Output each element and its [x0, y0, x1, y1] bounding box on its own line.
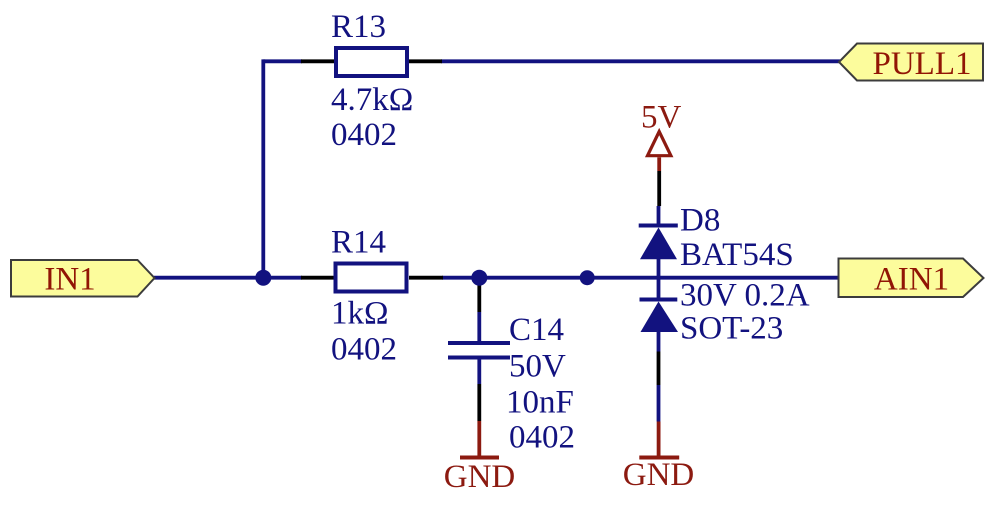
label: 5V net name — [641, 99, 682, 135]
svg-text:1kΩ: 1kΩ — [331, 296, 389, 332]
wire: IN1 net from IN1 port to R14 left pin — [154, 276, 302, 280]
wire: from D8 anode pin down to GND symbol — [657, 385, 661, 422]
svg-text:IN1: IN1 — [44, 261, 95, 297]
label: R14 reference — [331, 224, 386, 260]
svg-text:GND: GND — [444, 459, 516, 495]
wire: vertical from top corner down to IN1 net — [261, 59, 265, 278]
svg-text:30V 0.2A: 30V 0.2A — [680, 278, 810, 314]
svg-text:C14: C14 — [509, 312, 564, 348]
svg-text:D8: D8 — [680, 203, 720, 239]
svg-text:SOT-23: SOT-23 — [680, 310, 783, 346]
power 5V symbol — [648, 132, 671, 172]
resistor R13 body — [336, 48, 407, 76]
ground: GND symbol below D8 — [639, 422, 679, 458]
label: R13 reference — [331, 9, 386, 45]
svg-text:0402: 0402 — [331, 332, 397, 368]
svg-text:0402: 0402 — [331, 117, 397, 153]
pin: D8 anode pin to GND — [657, 352, 661, 386]
resistor R14 body — [336, 264, 407, 292]
label: C14 reference — [509, 312, 564, 348]
port PULL1 flag — [839, 44, 983, 81]
label: R13 footprint 0402 — [331, 117, 397, 153]
svg-text:4.7kΩ: 4.7kΩ — [331, 82, 413, 118]
node C: junction on AIN1 net — [580, 270, 595, 285]
port IN1 flag — [11, 260, 155, 297]
svg-text:PULL1: PULL1 — [873, 46, 972, 82]
wire: PULL1 net horizontal left segment — [263, 59, 302, 63]
diode D8 upper (to 5V) — [639, 206, 678, 298]
pin: C14 pin 1 — [477, 278, 481, 312]
pin: R13 pin 2 — [409, 59, 442, 63]
svg-text:5V: 5V — [641, 99, 682, 135]
diode D8 lower (to GND) — [640, 300, 679, 352]
pin: R14 pin 1 — [301, 276, 334, 280]
label: R14 footprint 0402 — [331, 332, 397, 368]
label: port PULL1 text — [873, 46, 972, 82]
label: D8 part BAT54S — [680, 237, 794, 273]
pin: D8 cathode pin to 5V — [657, 171, 661, 206]
capacitor C14 — [448, 312, 510, 384]
svg-text:R13: R13 — [331, 9, 386, 45]
label: D8 reference — [680, 203, 720, 239]
wire: PULL1 net horizontal right segment to PULL1 port — [441, 59, 840, 63]
pin: R13 pin 1 — [301, 59, 334, 63]
label: D8 rating 30V 0.2A — [680, 278, 810, 314]
svg-text:0402: 0402 — [509, 419, 575, 455]
wire: AIN1 net from R14 right pin to AIN1 port — [442, 276, 839, 280]
label: GND net name (right) — [623, 457, 695, 493]
label: C14 footprint 0402 — [509, 419, 575, 455]
pin: R14 pin 2 — [409, 276, 443, 280]
label: port IN1 text — [44, 261, 95, 297]
ground: GND symbol below C14 — [460, 421, 499, 458]
label: port AIN1 text — [874, 261, 949, 297]
label: D8 package SOT-23 — [680, 310, 783, 346]
svg-text:AIN1: AIN1 — [874, 261, 949, 297]
label: R14 value 1kOhm — [331, 296, 389, 332]
svg-text:50V: 50V — [509, 348, 566, 384]
svg-text:R14: R14 — [331, 224, 386, 260]
label: GND net name (left) — [444, 459, 516, 495]
label: R13 value 4.7kOhm — [331, 82, 413, 118]
node A: junction IN1/R13/R14 — [255, 270, 271, 286]
svg-text:10nF: 10nF — [506, 384, 574, 420]
node B: junction R14/C14 — [471, 270, 487, 286]
label: C14 voltage 50V — [509, 348, 566, 384]
pin: C14 pin 2 — [477, 384, 481, 421]
svg-text:BAT54S: BAT54S — [680, 237, 794, 273]
svg-text:GND: GND — [623, 457, 695, 493]
label: C14 value 10nF — [506, 384, 574, 420]
port AIN1 flag — [839, 259, 984, 298]
